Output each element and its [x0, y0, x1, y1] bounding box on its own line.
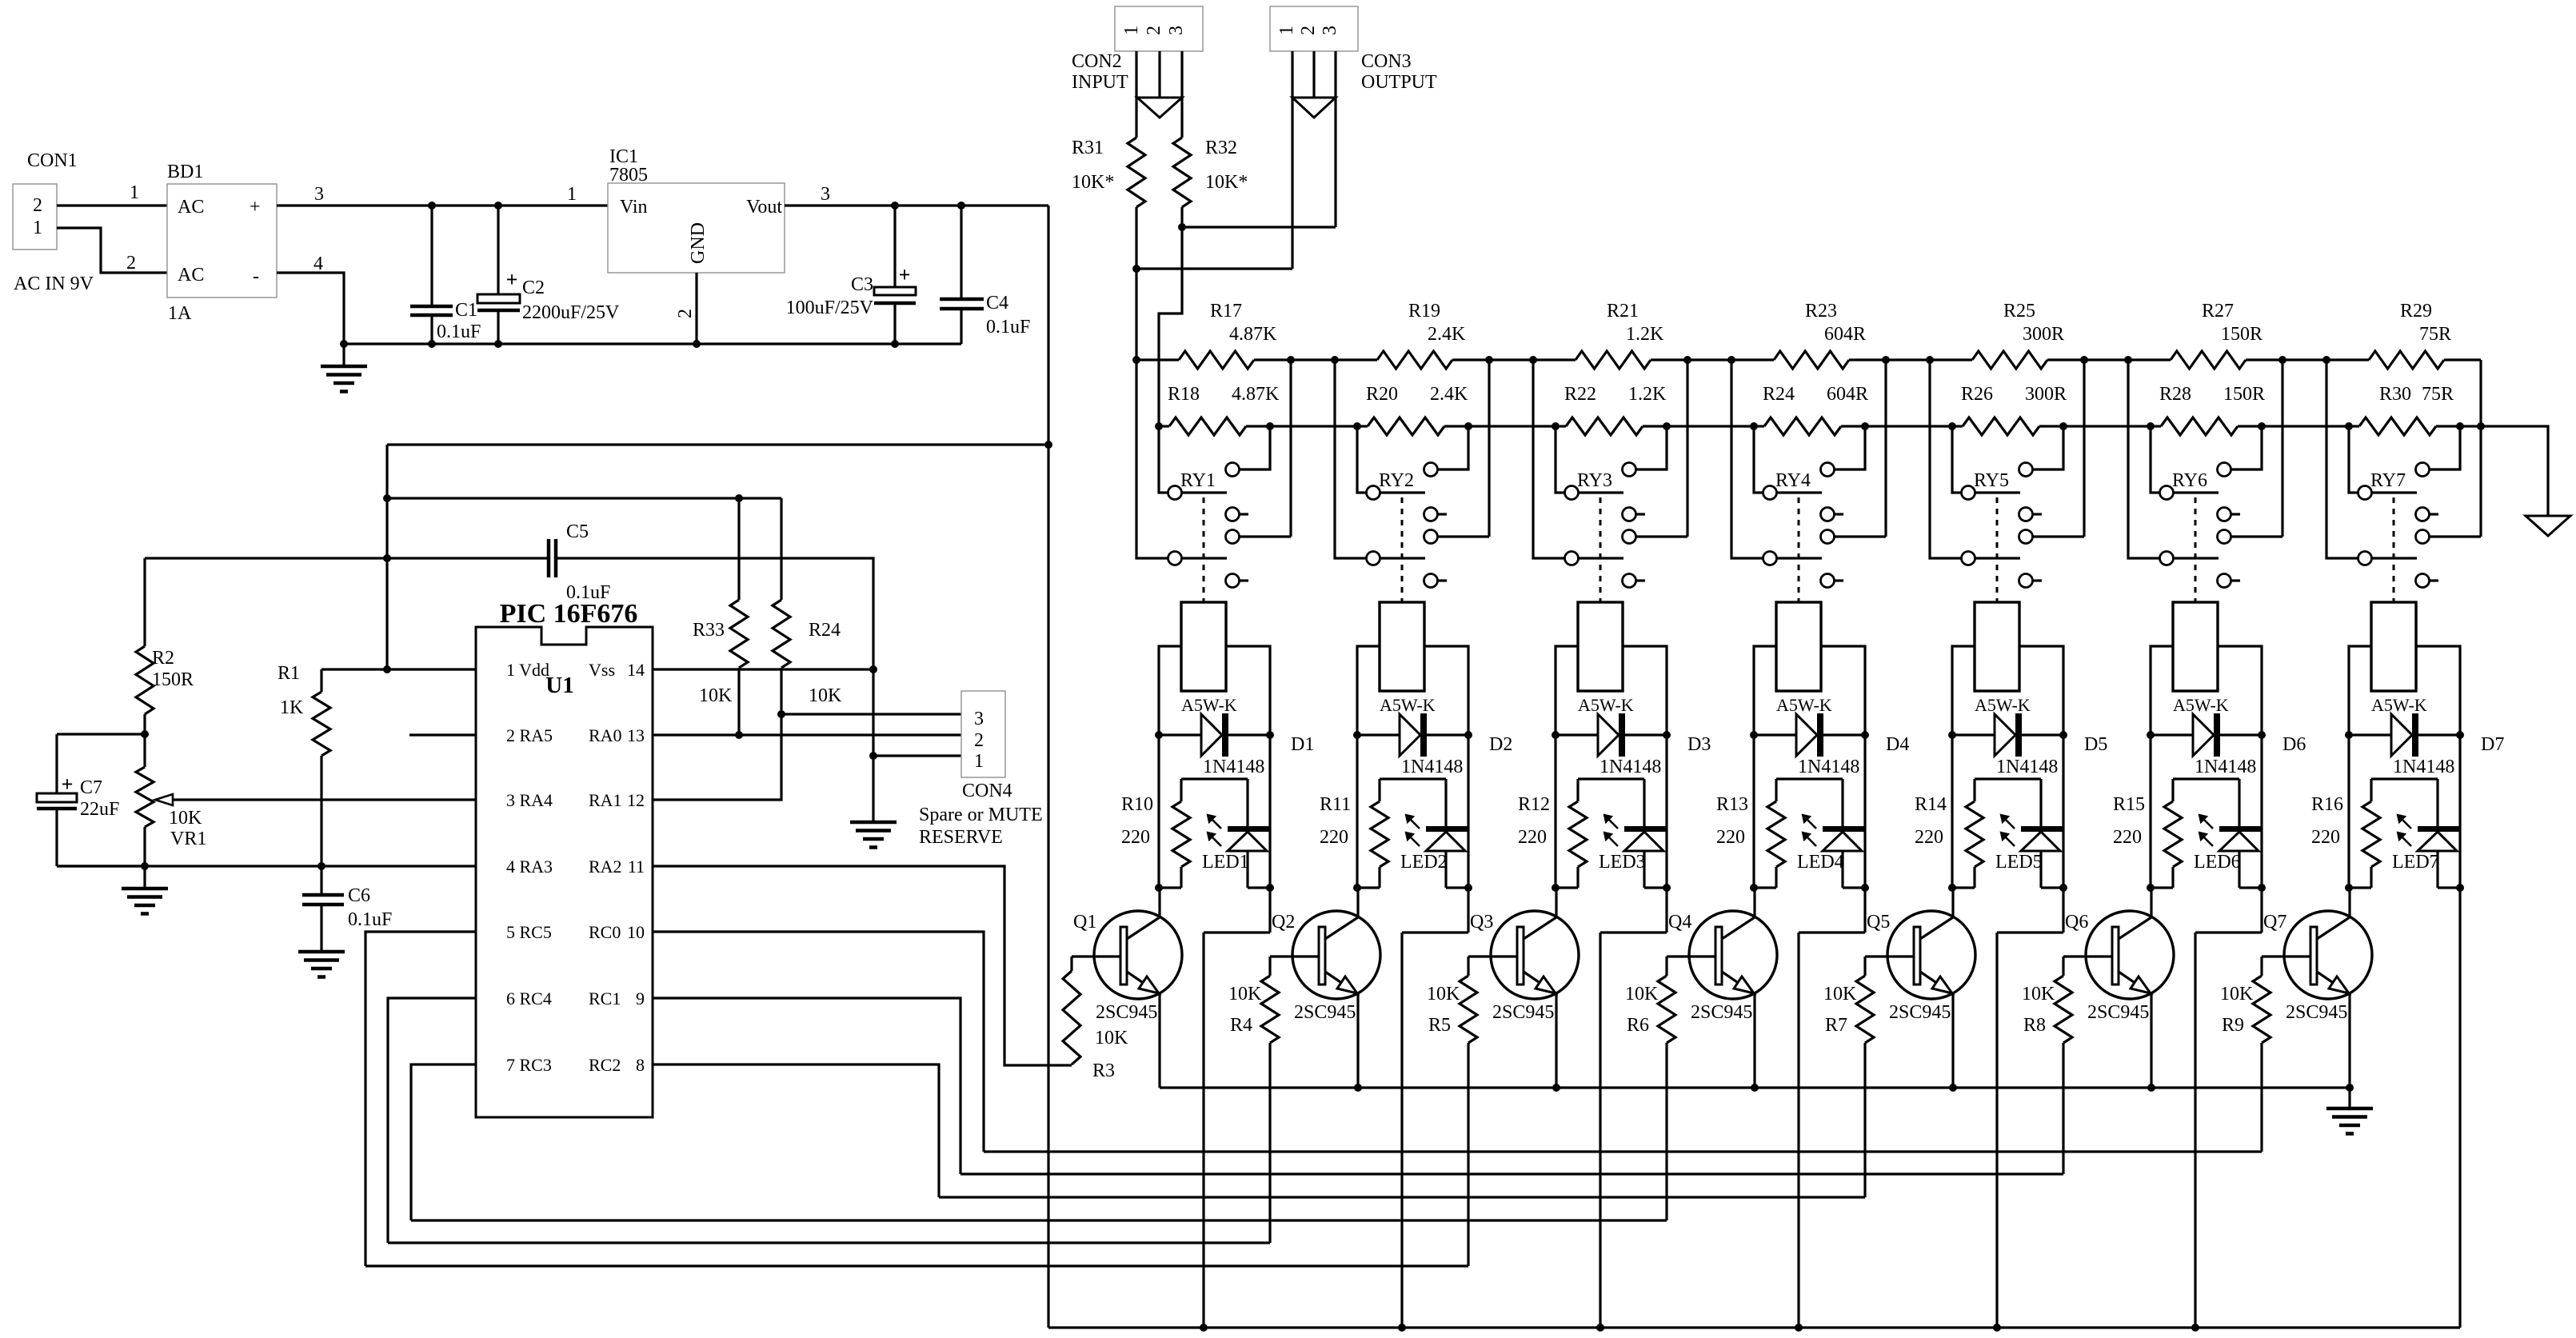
resistor R29 label — [2400, 301, 2451, 345]
junction R31 bottom — [1132, 265, 1140, 273]
svg-text:RY7: RY7 — [2370, 470, 2406, 491]
resistor R9 label — [2220, 984, 2254, 1036]
svg-text:R15: R15 — [2113, 794, 2145, 815]
diode type 1N4148 — [1600, 757, 1661, 777]
diode D5 — [1952, 713, 2063, 757]
capacitor C1 label — [437, 300, 481, 342]
junction row2 right 4 — [1861, 422, 1869, 430]
junction LED column right — [2456, 884, 2464, 892]
svg-text:10K: 10K — [1427, 984, 1460, 1004]
svg-text:GND: GND — [688, 222, 709, 264]
svg-text:CON4: CON4 — [962, 781, 1012, 801]
svg-text:10K: 10K — [1625, 984, 1659, 1004]
svg-text:10K: 10K — [2220, 984, 2254, 1004]
wire coil right terminal — [1226, 646, 1270, 735]
svg-text:A5W-K: A5W-K — [2371, 695, 2427, 715]
junction C3 top — [891, 202, 899, 210]
wire coil right terminal — [1424, 646, 1468, 735]
relay RY3 contact NO1 — [1623, 426, 1667, 477]
svg-text:1: 1 — [1121, 26, 1142, 35]
capacitor C7 (electrolytic) — [37, 734, 77, 866]
wire C7 bottom — [57, 865, 145, 867]
junction row1 node 3b — [1727, 356, 1735, 364]
relay RY1 pole 2 — [1168, 552, 1228, 565]
svg-text:3: 3 — [1320, 26, 1340, 35]
relay RY4 actuator link — [1798, 497, 1800, 602]
svg-text:C1: C1 — [455, 300, 477, 321]
junction row1 node 3a — [1683, 356, 1691, 364]
relay RY4 coil — [1776, 602, 1821, 691]
relay RY3 type A5W-K — [1578, 695, 1634, 715]
wire output node — [2481, 426, 2548, 516]
svg-text:R33: R33 — [693, 620, 725, 641]
relay RY2 actuator link — [1401, 497, 1404, 602]
svg-text:2: 2 — [675, 309, 696, 318]
svg-text:+: + — [250, 197, 261, 218]
transistor Q4 label — [1668, 912, 1691, 933]
wire coil left terminal — [2349, 646, 2371, 735]
svg-text:220: 220 — [1716, 827, 1745, 848]
transistor type 2SC945 — [1691, 1002, 1752, 1023]
bridge rectifier BD1 label — [167, 162, 203, 182]
bridge rectifier BD1 — [167, 184, 277, 298]
relay RY7 coil — [2371, 602, 2416, 691]
wire row1 to relay RY3 pole2 — [1533, 360, 1564, 558]
junction Vdd riser — [383, 665, 391, 673]
diode D2 — [1357, 713, 1468, 757]
wire number 1 (IC1 Vin) — [567, 184, 577, 205]
relay RY4 label — [1775, 470, 1811, 491]
svg-text:R31: R31 — [1072, 138, 1104, 158]
transistor type 2SC945 — [1294, 1002, 1356, 1023]
svg-text:604R: 604R — [1827, 384, 1868, 405]
svg-text:12: 12 — [627, 790, 645, 810]
junction row2 left 7 — [2345, 422, 2353, 430]
svg-text:-: - — [253, 266, 259, 287]
svg-text:RESERVE: RESERVE — [919, 827, 1003, 848]
wire emitter to rail — [2348, 994, 2350, 1088]
capacitor C6 — [302, 866, 344, 952]
relay RY6 label — [2172, 470, 2207, 491]
wire R-LED link — [2371, 779, 2438, 826]
svg-text:0.1uF: 0.1uF — [348, 909, 392, 930]
svg-text:LED5: LED5 — [1995, 852, 2043, 873]
svg-text:R8: R8 — [2023, 1015, 2046, 1036]
wire bus RC3 to R6 — [411, 1219, 1667, 1221]
resistor R16 — [2349, 779, 2380, 888]
relay RY7 actuator link — [2393, 497, 2395, 602]
junction row2 right 7 — [2456, 422, 2464, 430]
relay RY1 contact NC2 — [1226, 574, 1249, 588]
wire RC1 to bus — [653, 998, 961, 1174]
junction row1 left — [1132, 356, 1140, 364]
junction +5 bus drop 4 — [1795, 1324, 1803, 1332]
diode D3 — [1556, 713, 1667, 757]
resistor R11 — [1357, 779, 1388, 888]
svg-text:VR1: VR1 — [170, 829, 206, 849]
relay RY4 contact to row1 — [1821, 360, 1887, 544]
svg-text:3: 3 — [974, 709, 984, 729]
svg-text:1.2K: 1.2K — [1628, 384, 1667, 405]
relay RY1 coil — [1181, 602, 1226, 691]
resistor R7 label — [1823, 984, 1857, 1036]
relay RY3 contact to row1 — [1623, 360, 1688, 544]
wire coil- to +5 bus — [2458, 735, 2461, 1328]
wire row2 to relay RY4 pole1 — [1754, 426, 1763, 493]
wire C7 top — [57, 733, 145, 735]
potentiometer VR1 wiper arrow — [155, 794, 476, 805]
svg-text:3: 3 — [314, 184, 324, 205]
junction LED column left — [2345, 884, 2353, 892]
transistor Q3 — [1491, 911, 1579, 999]
wire emitter to rail — [1951, 994, 1954, 1088]
wire emitter ground rail — [1160, 1086, 2350, 1088]
svg-text:R13: R13 — [1716, 794, 1748, 815]
svg-text:D3: D3 — [1687, 734, 1711, 755]
wire coil- to +5 drop — [1402, 735, 1468, 1328]
svg-text:Q6: Q6 — [2065, 912, 2088, 933]
resistor R27 label — [2202, 301, 2262, 345]
resistor R31 — [1128, 51, 1145, 269]
junction diode anode — [2147, 731, 2155, 739]
svg-text:1A: 1A — [168, 303, 192, 324]
junction LED column left — [1552, 884, 1560, 892]
wire coil left terminal — [1952, 646, 1975, 735]
relay RY3 pole 1 — [1565, 486, 1624, 500]
relay RY4 contact NC1 — [1821, 508, 1844, 521]
relay RY5 pole 1 — [1962, 486, 2021, 500]
svg-text:INPUT: INPUT — [1072, 72, 1128, 93]
junction diode anode — [1155, 731, 1163, 739]
svg-text:2: 2 — [1298, 26, 1319, 35]
wire coil- to +5 drop — [1997, 735, 2063, 1328]
wire coil right terminal — [1623, 646, 1667, 735]
wire CON1 pin1 to BD1 AC — [57, 228, 167, 273]
junction +5 tee to Vdd — [1044, 441, 1052, 449]
svg-text:2: 2 — [126, 253, 136, 274]
capacitor C4 — [940, 206, 984, 344]
resistor R20 — [1357, 417, 1556, 435]
svg-text:220: 220 — [2311, 827, 2340, 848]
wire bus RC1 to R8 — [961, 1172, 2063, 1175]
wire ground line RA3 — [57, 865, 476, 867]
transistor Q6 label — [2065, 912, 2088, 933]
wire pullup feed — [387, 497, 781, 499]
svg-text:CON2: CON2 — [1072, 51, 1122, 72]
svg-text:150R: 150R — [152, 669, 194, 690]
resistor R15 label — [2113, 794, 2145, 848]
junction diode anode — [2345, 731, 2353, 739]
diode type 1N4148 — [1401, 757, 1463, 777]
resistor R6 label — [1625, 984, 1659, 1036]
svg-text:Q7: Q7 — [2263, 912, 2286, 933]
junction row2 left 5 — [1948, 422, 1956, 430]
capacitor C5 — [549, 539, 556, 577]
svg-text:CON3: CON3 — [1361, 51, 1412, 72]
resistor R24 (pullup) — [773, 498, 790, 714]
pin number 2 (IC1 GND) — [675, 309, 696, 318]
transistor type 2SC945 — [1889, 1002, 1951, 1023]
wire R-LED link — [1380, 779, 1446, 826]
wire row2 to relay RY6 pole1 — [2151, 426, 2159, 493]
svg-text:R10: R10 — [1121, 794, 1153, 815]
wire coil left terminal — [1754, 646, 1776, 735]
resistor R23 label — [1805, 301, 1866, 345]
svg-text:R5: R5 — [1428, 1015, 1451, 1036]
transistor Q1 — [1094, 911, 1182, 999]
capacitor C3 polarity + — [899, 263, 911, 286]
wire row2 to relay RY3 pole1 — [1556, 426, 1564, 493]
diode D2 label — [1489, 734, 1512, 755]
diode D4 — [1754, 713, 1865, 757]
junction IC1 GND rail — [693, 340, 701, 348]
relay RY6 actuator link — [2195, 497, 2197, 602]
wire CON3 pin2 — [1312, 51, 1315, 98]
junction R2/VR1/C7 — [141, 730, 149, 738]
relay RY5 label — [1974, 470, 2009, 491]
svg-text:R19: R19 — [1408, 301, 1440, 322]
diode type 1N4148 — [1996, 757, 2058, 777]
wire row2 to relay RY5 pole1 — [1952, 426, 1961, 493]
resistor R5 label — [1427, 984, 1460, 1036]
svg-text:14: 14 — [627, 660, 645, 680]
relay RY2 contact to row1 — [1424, 360, 1490, 544]
ground symbol (power supply) — [321, 344, 367, 392]
capacitor C7 polarity + — [62, 773, 74, 796]
wire CON4 pin3 line — [781, 713, 961, 715]
junction diode anode — [1552, 731, 1560, 739]
junction BD1- rail — [340, 340, 348, 348]
junction LED column left — [1353, 884, 1361, 892]
resistor R1 label — [278, 663, 304, 718]
diode D6 label — [2282, 734, 2306, 755]
junction +5 bus drop 2 — [1398, 1324, 1406, 1332]
svg-text:1N4148: 1N4148 — [1600, 757, 1661, 777]
capacitor C6 label — [348, 885, 392, 930]
relay RY5 pole 2 — [1962, 552, 2021, 565]
svg-text:R11: R11 — [1320, 794, 1351, 815]
resistor R32 — [1173, 51, 1191, 227]
wire row2 to relay RY7 pole1 — [2349, 426, 2358, 493]
relay RY2 pole 2 — [1367, 552, 1426, 565]
junction emitter rail 6 — [2147, 1084, 2155, 1092]
svg-text:D6: D6 — [2282, 734, 2306, 755]
junction Vss/ground riser — [869, 665, 877, 673]
svg-text:C7: C7 — [80, 777, 102, 798]
ground symbol (MCU) — [850, 822, 897, 848]
wire RC3 to bus — [411, 1064, 476, 1220]
connector CON3 label — [1361, 51, 1437, 93]
capacitor C3 label — [786, 274, 874, 318]
resistor R25 label — [2003, 301, 2064, 345]
svg-text:U1: U1 — [545, 673, 573, 698]
resistor R19 label — [1408, 301, 1466, 345]
svg-text:A5W-K: A5W-K — [1578, 695, 1634, 715]
junction row2 right 2 — [1464, 422, 1472, 430]
svg-text:1N4148: 1N4148 — [2393, 757, 2454, 777]
wire row1 to relay RY1 pole2 — [1136, 360, 1168, 558]
wire R31 node down to row1 — [1135, 269, 1137, 360]
svg-text:+: + — [62, 773, 74, 796]
svg-text:1: 1 — [974, 751, 984, 772]
relay RY7 pole 1 — [2358, 486, 2418, 500]
svg-text:2SC945: 2SC945 — [2087, 1002, 2149, 1023]
svg-text:1.2K: 1.2K — [1626, 324, 1664, 345]
junction LED column left — [2147, 884, 2155, 892]
svg-text:75R: 75R — [2422, 384, 2454, 405]
relay RY7 contact NO1 — [2416, 426, 2461, 477]
wire bus RC4 to R4 — [388, 1241, 1270, 1244]
junction row1 node 5a — [2080, 356, 2088, 364]
junction diode anode — [1948, 731, 1956, 739]
wire CON1 pin2 to BD1 AC — [57, 204, 167, 206]
junction emitter rail 4 — [1751, 1084, 1759, 1092]
junction row2 left 2 — [1353, 422, 1361, 430]
relay RY6 contact to row1 — [2218, 360, 2283, 544]
svg-text:C2: C2 — [522, 278, 545, 298]
wire RA2 to R3 — [653, 866, 1072, 1065]
wire row1 to relay RY5 pole2 — [1930, 360, 1961, 558]
svg-text:A5W-K: A5W-K — [1380, 695, 1436, 715]
junction LED column left — [1948, 884, 1956, 892]
svg-text:2SC945: 2SC945 — [1889, 1002, 1951, 1023]
svg-text:1N4148: 1N4148 — [1996, 757, 2058, 777]
svg-text:R6: R6 — [1627, 1015, 1649, 1036]
svg-text:4: 4 — [314, 254, 323, 274]
transistor type 2SC945 — [2286, 1002, 2347, 1023]
svg-text:300R: 300R — [2023, 324, 2064, 345]
LED LED7 — [2398, 815, 2460, 888]
transistor Q1 label — [1073, 912, 1096, 933]
wire R31 to CON3 pin1 — [1136, 51, 1292, 269]
svg-text:R24: R24 — [809, 620, 841, 641]
diode type 1N4148 — [1203, 757, 1264, 777]
wire row1 to relay RY7 pole2 — [2326, 360, 2358, 558]
svg-text:CON1: CON1 — [27, 150, 78, 171]
MCU pin labels — [506, 660, 645, 1075]
svg-text:Vout: Vout — [746, 197, 782, 218]
junction C2 bottom — [494, 340, 502, 348]
svg-text:R25: R25 — [2003, 301, 2035, 322]
junction C1 bottom — [428, 340, 436, 348]
svg-text:4.87K: 4.87K — [1232, 384, 1280, 405]
transistor Q6 — [2086, 911, 2174, 999]
svg-text:2SC945: 2SC945 — [2286, 1002, 2347, 1023]
svg-text:RA0: RA0 — [589, 725, 622, 745]
relay RY3 coil — [1578, 602, 1623, 691]
svg-text:PIC 16F676: PIC 16F676 — [500, 599, 638, 629]
relay RY1 contact NC1 — [1226, 508, 1249, 521]
svg-text:2.4K: 2.4K — [1428, 324, 1466, 345]
resistor R18 label — [1168, 384, 1280, 405]
relay RY5 coil — [1975, 602, 2019, 691]
junction emitter rail 2 — [1354, 1084, 1362, 1092]
wire coil left terminal — [2151, 646, 2173, 735]
svg-text:A5W-K: A5W-K — [1776, 695, 1832, 715]
svg-text:Q4: Q4 — [1668, 912, 1691, 933]
junction LED column right — [1861, 884, 1869, 892]
svg-text:5 RC5: 5 RC5 — [506, 922, 552, 942]
resistor R5 (base) — [1460, 957, 1517, 1266]
junction row2 left 1 — [1155, 422, 1163, 430]
resistor R22 — [1556, 417, 1754, 435]
connector CON1 label — [27, 150, 78, 171]
wire collector column — [1952, 735, 1953, 917]
svg-text:LED7: LED7 — [2392, 852, 2439, 873]
transistor Q3 label — [1470, 912, 1493, 933]
junction +5 bus drop 3 — [1596, 1324, 1604, 1332]
svg-text:8: 8 — [636, 1055, 645, 1075]
relay RY5 actuator link — [1996, 497, 1999, 602]
junction emitter rail 3 — [1552, 1084, 1560, 1092]
junction row2 right 6 — [2258, 422, 2266, 430]
resistor R33 label — [693, 620, 733, 706]
resistor R8 (base) — [2055, 957, 2112, 1174]
wire coil- to +5 drop — [1204, 735, 1270, 1328]
svg-text:LED4: LED4 — [1797, 852, 1844, 873]
resistor R33 (pullup) — [730, 498, 748, 735]
transistor Q2 — [1292, 911, 1380, 999]
wire bus RC2 to R7 — [939, 1196, 1865, 1198]
capacitor C5 label — [566, 521, 610, 603]
svg-text:2: 2 — [974, 730, 984, 751]
junction diode cathode — [1464, 731, 1472, 739]
svg-text:C3: C3 — [851, 274, 873, 295]
junction row1 node 1a — [1287, 356, 1295, 364]
transistor type 2SC945 — [1096, 1002, 1157, 1023]
junction LED column right — [2059, 884, 2067, 892]
wire number 2 — [126, 253, 136, 274]
junction riser/pullup feed — [383, 494, 391, 502]
wire R32 to CON3 pin3 — [1182, 51, 1336, 227]
relay RY7 pole 2 — [2358, 552, 2418, 565]
junction emitter rail 5 — [1949, 1084, 1957, 1092]
resistor R1 — [313, 669, 330, 866]
junction C4 top — [957, 202, 965, 210]
svg-text:2200uF/25V: 2200uF/25V — [522, 302, 620, 323]
relay RY2 label — [1379, 470, 1414, 491]
transistor Q4 — [1689, 911, 1777, 999]
wire R24 to RA1 — [653, 714, 781, 800]
svg-text:AC IN 9V: AC IN 9V — [14, 274, 94, 294]
junction row2 right 5 — [2059, 422, 2067, 430]
wire BD1 - to ground rail — [277, 273, 344, 344]
svg-text:A5W-K: A5W-K — [1975, 695, 2031, 715]
potentiometer VR1 label — [169, 808, 206, 849]
relay RY7 contact NC1 — [2416, 508, 2439, 521]
wire RC0 to bus — [653, 932, 984, 1152]
wire number 1 — [130, 182, 139, 203]
svg-text:D5: D5 — [2084, 734, 2107, 755]
svg-text:2SC945: 2SC945 — [1096, 1002, 1157, 1023]
wire +5 to MCU area — [387, 443, 1048, 445]
connector CON2 — [1115, 6, 1203, 51]
relay RY4 contact NO1 — [1821, 426, 1866, 477]
resistor R20 label — [1366, 384, 1468, 405]
wire number 3 — [314, 184, 324, 205]
junction LED column left — [1750, 884, 1758, 892]
relay RY6 contact NO1 — [2218, 426, 2262, 477]
resistor R32 label — [1205, 138, 1248, 193]
wire coil left terminal — [1556, 646, 1578, 735]
capacitor C2 polarity + — [506, 268, 518, 291]
svg-text:13: 13 — [627, 725, 645, 745]
junction C3 bottom — [891, 340, 899, 348]
svg-text:1: 1 — [567, 184, 577, 205]
svg-text:RY2: RY2 — [1379, 470, 1414, 491]
wire coil- to +5 drop — [1600, 735, 1667, 1328]
svg-text:1N4148: 1N4148 — [2195, 757, 2256, 777]
